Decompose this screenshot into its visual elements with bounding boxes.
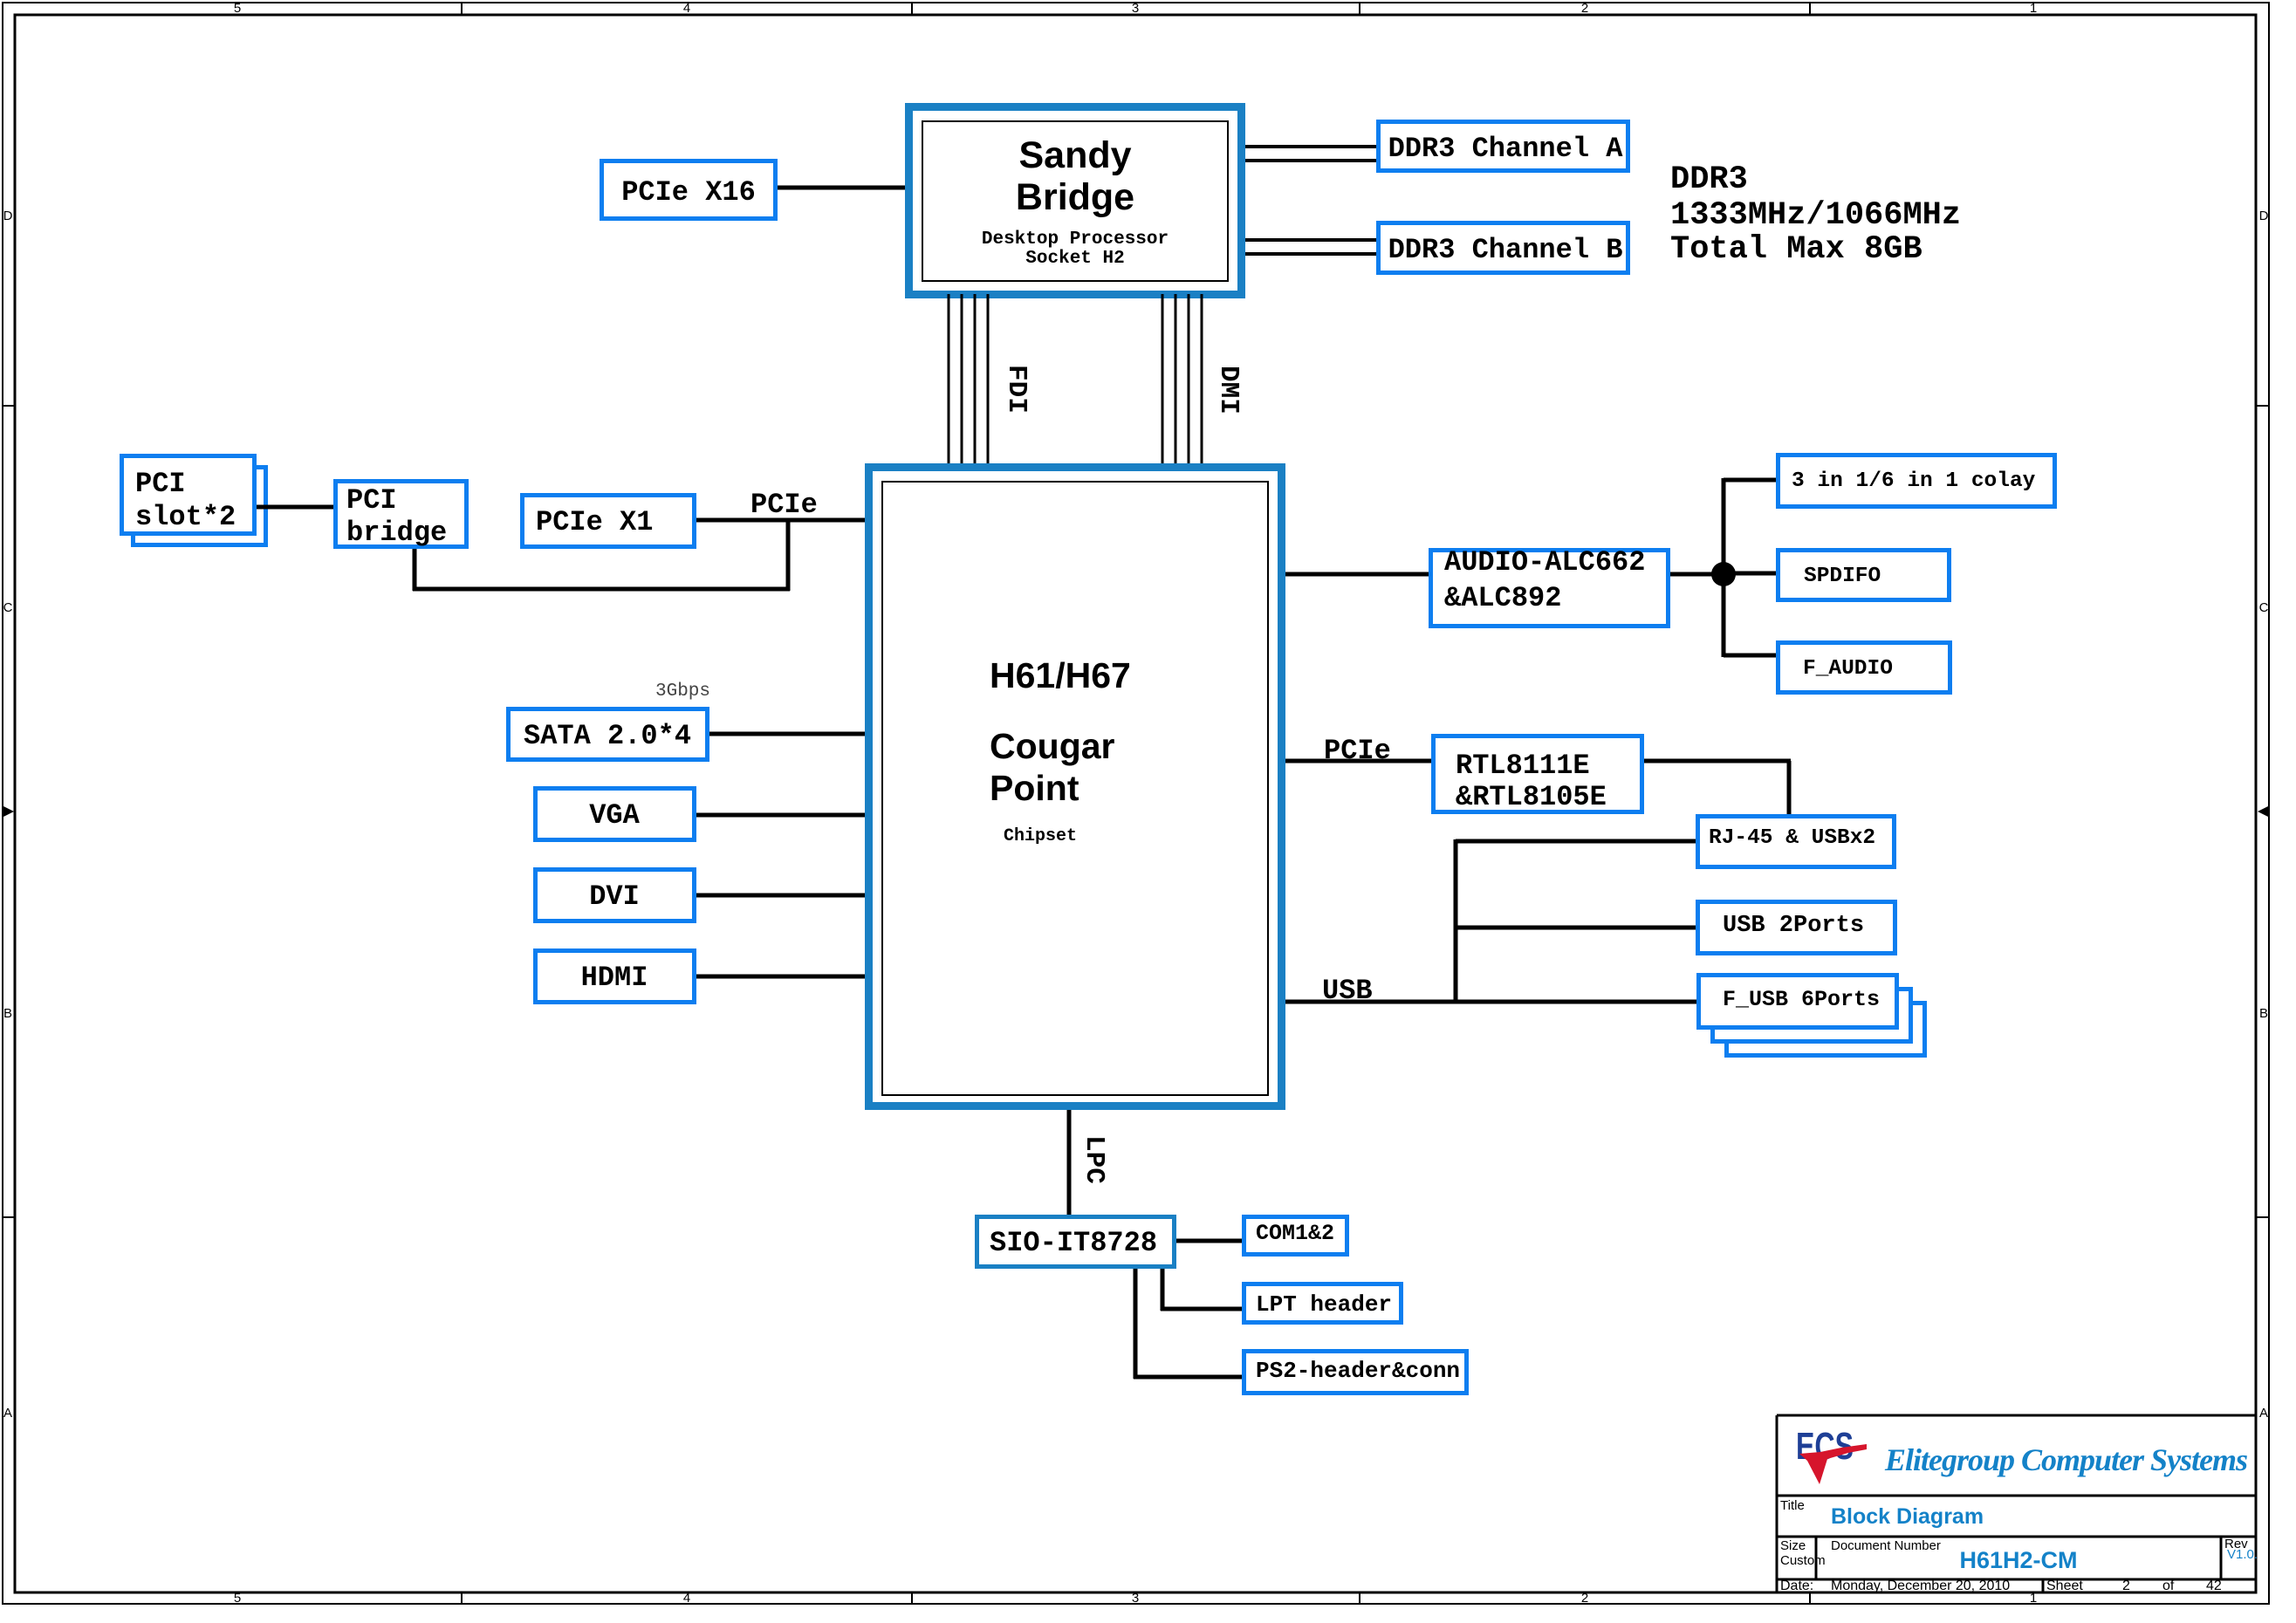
- svg-text:DDR3 Channel A: DDR3 Channel A: [1388, 133, 1624, 165]
- svg-text:1: 1: [2030, 1, 2037, 16]
- svg-text:DVI: DVI: [589, 880, 640, 913]
- cpu Sandy Bridge inner rect: [922, 121, 1228, 281]
- connector SPDIFO: [1779, 551, 1950, 600]
- svg-text:Document Number: Document Number: [1831, 1538, 1941, 1553]
- svg-text:Block Diagram: Block Diagram: [1831, 1504, 1984, 1529]
- svg-text:1: 1: [2030, 1591, 2037, 1606]
- bus DMI wires: [1162, 294, 1164, 469]
- svg-text:bridge: bridge: [346, 517, 447, 549]
- wire USB trunk vertical: [1454, 839, 1458, 1002]
- svg-text:Cougar: Cougar: [990, 726, 1115, 766]
- zone ticks bottom: [461, 1592, 463, 1605]
- svg-text:PCIe X16: PCIe X16: [621, 176, 756, 209]
- svg-text:2: 2: [1581, 1, 1588, 16]
- svg-text:B: B: [2259, 1006, 2268, 1021]
- svg-text:slot*2: slot*2: [135, 501, 236, 533]
- svg-text:PCI: PCI: [135, 468, 186, 500]
- memory DDR3 Channel A: [1379, 122, 1628, 171]
- svg-text:C: C: [3, 600, 13, 615]
- wire SIO to PS2 horizontal: [1134, 1375, 1242, 1380]
- svg-text:VGA: VGA: [589, 799, 640, 832]
- junction audio node: [1711, 562, 1736, 586]
- svg-text:SATA 2.0*4: SATA 2.0*4: [524, 720, 691, 752]
- svg-text:Custom: Custom: [1780, 1553, 1826, 1568]
- wire chipset to LAN chip: [1285, 759, 1431, 764]
- memory DDR3 Channel B: [1379, 223, 1628, 273]
- wire LAN chip to RJ-45 horizontal: [1644, 759, 1791, 764]
- svg-text:LPT header: LPT header: [1256, 1291, 1392, 1318]
- wire DDR3 A line1: [1245, 145, 1376, 148]
- wire PCIe X1 to chipset: [696, 518, 865, 523]
- svg-text:DMI: DMI: [1213, 366, 1244, 414]
- wire audio trunk vertical: [1722, 478, 1726, 657]
- connector VGA: [536, 789, 695, 840]
- wire SIO to LPT drop: [1161, 1269, 1165, 1311]
- connector F_USB 6Ports: [1699, 976, 1897, 1028]
- svg-text:2: 2: [2122, 1578, 2130, 1593]
- lan chip RTL8111E &RTL8105E: [1434, 736, 1642, 812]
- wire PCI bridge drop: [413, 549, 417, 591]
- wire DDR3 B line1: [1245, 238, 1376, 242]
- wire chipset to F_USB: [1285, 1000, 1696, 1004]
- svg-text:H61/H67: H61/H67: [990, 655, 1131, 695]
- zone ticks left: [2, 405, 14, 407]
- wire PCI bridge riser: [786, 522, 791, 591]
- svg-text:Title: Title: [1780, 1498, 1805, 1513]
- svg-text:42: 42: [2206, 1578, 2222, 1593]
- wire branch to SPDIFO: [1724, 572, 1777, 576]
- svg-text:Sheet: Sheet: [2046, 1578, 2083, 1593]
- svg-text:Size: Size: [1780, 1538, 1806, 1553]
- wire DVI to chipset: [696, 894, 865, 898]
- wire PCI bridge horizontal: [413, 587, 790, 592]
- connector LPT header: [1244, 1284, 1402, 1323]
- svg-text:RJ-45 & USBx2: RJ-45 & USBx2: [1709, 826, 1875, 850]
- cpu Sandy Bridge outer: [909, 107, 1242, 295]
- chipset H61/H67 Cougar Point outer: [869, 468, 1282, 1106]
- wire chipset to audio codec: [1285, 572, 1429, 577]
- svg-text:3: 3: [1132, 1, 1139, 16]
- center arrow right: [2258, 805, 2270, 818]
- svg-text:LPC: LPC: [1079, 1135, 1109, 1184]
- svg-text:Bridge: Bridge: [1016, 176, 1134, 218]
- svg-text:C: C: [2259, 600, 2269, 615]
- audio codec AUDIO-ALC662 &ALC892: [1431, 551, 1669, 627]
- connector F_USB 6Ports shadow2: [1727, 1003, 1925, 1056]
- svg-text:RTL8111E: RTL8111E: [1456, 750, 1590, 782]
- svg-text:4: 4: [683, 1591, 690, 1606]
- wire HDMI to chipset: [696, 975, 865, 979]
- wire SATA to chipset: [709, 732, 865, 736]
- connector DVI: [536, 870, 695, 921]
- svg-text:DDR3: DDR3: [1670, 161, 1748, 198]
- svg-text:3 in 1/6 in 1 colay: 3 in 1/6 in 1 colay: [1792, 469, 2036, 493]
- svg-text:PS2-header&conn: PS2-header&conn: [1256, 1358, 1460, 1384]
- connector 3 in 1/6 in 1 colay: [1779, 455, 2055, 507]
- svg-text:Total Max 8GB: Total Max 8GB: [1670, 231, 1922, 268]
- svg-text:Elitegroup Computer Systems: Elitegroup Computer Systems: [1884, 1442, 2247, 1477]
- svg-text:3: 3: [1132, 1591, 1139, 1606]
- svg-text:HDMI: HDMI: [581, 962, 648, 994]
- svg-text:Socket H2: Socket H2: [1025, 249, 1124, 269]
- wire SIO to LPT horizontal: [1161, 1307, 1242, 1311]
- svg-text:&ALC892: &ALC892: [1444, 582, 1561, 614]
- svg-text:&RTL8105E: &RTL8105E: [1456, 781, 1607, 813]
- wire LPC bus: [1067, 1110, 1072, 1215]
- svg-text:USB 2Ports: USB 2Ports: [1723, 913, 1864, 939]
- svg-text:D: D: [3, 209, 13, 223]
- svg-text:F_AUDIO: F_AUDIO: [1803, 657, 1893, 681]
- svg-text:FDI: FDI: [1001, 365, 1031, 414]
- connector PCI slot*2 shadow: [134, 468, 266, 545]
- svg-text:A: A: [3, 1406, 12, 1421]
- svg-text:PCIe X1: PCIe X1: [536, 506, 653, 538]
- connector F_USB 6Ports shadow1: [1713, 990, 1911, 1042]
- connector PS2-header&conn: [1244, 1352, 1467, 1394]
- title block dividers: [1816, 1537, 2221, 1592]
- connector RJ-45 & USBx2: [1698, 817, 1895, 867]
- svg-text:1333MHz/1066MHz: 1333MHz/1066MHz: [1670, 197, 1961, 234]
- svg-text:D: D: [2259, 209, 2269, 223]
- wire branch to USB 2Ports: [1456, 926, 1696, 930]
- wire SIO to COM1&2: [1176, 1239, 1242, 1243]
- zone ticks top: [461, 2, 463, 14]
- wire branch to RJ-45: [1456, 839, 1696, 844]
- svg-text:V1.0.: V1.0.: [2227, 1547, 2258, 1562]
- connector HDMI: [536, 951, 695, 1003]
- center arrow left: [2, 805, 14, 818]
- superio SIO-IT8728: [977, 1217, 1175, 1267]
- connector PCI slot*2: [122, 456, 255, 534]
- svg-text:A: A: [2259, 1406, 2268, 1421]
- svg-text:PCI: PCI: [346, 484, 397, 517]
- svg-text:5: 5: [234, 1591, 241, 1606]
- svg-text:2: 2: [1581, 1591, 1588, 1606]
- wire branch to F_AUDIO: [1724, 654, 1776, 658]
- svg-text:Point: Point: [990, 768, 1079, 808]
- svg-text:AUDIO-ALC662: AUDIO-ALC662: [1444, 546, 1645, 579]
- chipset inner rect: [882, 482, 1268, 1095]
- wire DDR3 B line2: [1245, 252, 1376, 256]
- svg-text:SPDIFO: SPDIFO: [1804, 565, 1881, 588]
- connector COM1&2: [1244, 1217, 1347, 1255]
- svg-text:PCIe: PCIe: [750, 489, 818, 521]
- connector F_AUDIO: [1779, 643, 1950, 693]
- svg-text:H61H2-CM: H61H2-CM: [1959, 1547, 2077, 1573]
- bus FDI wires: [948, 294, 950, 469]
- svg-text:SIO-IT8728: SIO-IT8728: [990, 1227, 1157, 1259]
- wire SIO to PS2 drop: [1134, 1269, 1138, 1379]
- wire LAN chip to RJ-45 drop: [1787, 761, 1792, 814]
- svg-text:Desktop Processor: Desktop Processor: [982, 229, 1169, 250]
- wire DDR3 A line2: [1245, 159, 1376, 162]
- svg-text:5: 5: [234, 1, 241, 16]
- svg-text:B: B: [3, 1006, 12, 1021]
- wire branch to colay: [1724, 478, 1776, 483]
- svg-text:of: of: [2162, 1578, 2175, 1593]
- svg-text:Date:: Date:: [1780, 1578, 1813, 1593]
- wire PCI slot to PCI bridge: [257, 505, 333, 510]
- svg-text:Chipset: Chipset: [1004, 826, 1077, 846]
- logo ECS red swoosh: [1799, 1444, 1867, 1484]
- svg-text:F_USB 6Ports: F_USB 6Ports: [1723, 987, 1880, 1012]
- svg-text:COM1&2: COM1&2: [1256, 1221, 1334, 1246]
- bridge PCI bridge: [336, 482, 467, 547]
- zone ticks right: [2257, 405, 2270, 407]
- connector PCIe X16: [602, 161, 776, 219]
- connector USB 2Ports: [1698, 902, 1895, 954]
- svg-text:Sandy: Sandy: [1018, 134, 1131, 176]
- title block outline: [1777, 1415, 2257, 1592]
- svg-text:DDR3 Channel B: DDR3 Channel B: [1388, 234, 1623, 266]
- connector PCIe X1: [523, 496, 695, 547]
- svg-text:3Gbps: 3Gbps: [655, 681, 710, 702]
- connector SATA 2.0*4: [509, 709, 708, 760]
- svg-text:Monday, December 20, 2010: Monday, December 20, 2010: [1831, 1578, 2010, 1593]
- svg-text:4: 4: [683, 1, 690, 16]
- wire VGA to chipset: [696, 813, 865, 818]
- wire PCIe X16 to CPU: [778, 186, 905, 190]
- wire audio codec to junction: [1670, 572, 1724, 577]
